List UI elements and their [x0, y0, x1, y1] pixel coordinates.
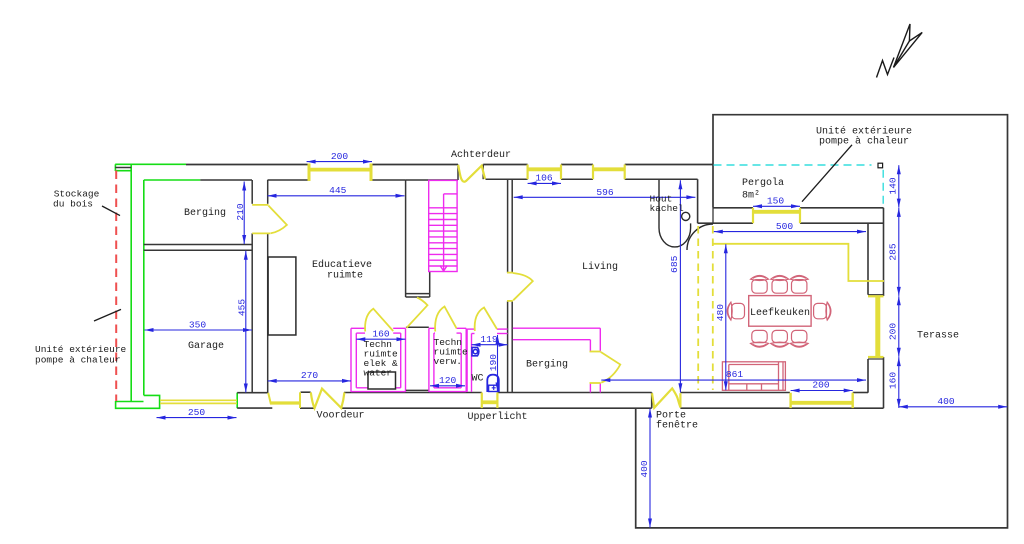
svg-text:150: 150	[767, 196, 785, 207]
dimension 400 (terrace height)	[648, 409, 652, 528]
chair bottom 2	[771, 330, 789, 347]
pointer line unite exterieure right	[802, 145, 852, 202]
wc washbasin (blue)	[472, 347, 479, 355]
berging (living) room magenta	[513, 328, 601, 392]
dimension 160 (chain)	[897, 357, 901, 408]
dimension 596 (living width)	[514, 195, 696, 199]
dimension 150 (pergola window)	[753, 204, 800, 208]
window 200 top (yellow)	[309, 164, 371, 182]
dimension 200 (top window)	[307, 160, 372, 164]
svg-text:Unité extérieure: Unité extérieure	[35, 344, 127, 355]
techn elek door (yellow)	[365, 309, 393, 332]
garage side door sill (yellow)	[271, 401, 300, 404]
wood storage green enclosure	[115, 164, 237, 408]
terrace outline	[636, 115, 1008, 528]
svg-text:WC: WC	[471, 374, 483, 385]
berging-garage wall left section	[144, 180, 268, 393]
living left wall (double)	[508, 179, 513, 392]
dimension 861 (living-keuken span)	[601, 378, 866, 382]
svg-text:Upperlicht: Upperlicht	[467, 411, 527, 423]
wc toilet (blue)	[487, 375, 499, 392]
porte fenetre door (yellow zigzag)	[652, 388, 680, 407]
svg-text:verw.: verw.	[434, 356, 463, 367]
wc room (magenta)	[467, 329, 508, 392]
dimension 500 (leefkeuken width)	[714, 230, 866, 234]
svg-text:210: 210	[235, 203, 246, 221]
svg-text:Pergola: Pergola	[742, 177, 784, 189]
svg-text:pompe à chaleur: pompe à chaleur	[819, 136, 909, 148]
hout kachel stove	[659, 180, 691, 247]
svg-text:Educatieve: Educatieve	[312, 259, 372, 271]
exterior top wall outer line	[186, 164, 713, 166]
yellow dashed passage lines living/leefkeuken	[698, 226, 713, 390]
red dashed line stockage	[115, 171, 117, 402]
svg-text:685: 685	[669, 255, 680, 273]
svg-text:455: 455	[237, 299, 248, 317]
dimension 119 (wc width)	[472, 343, 508, 347]
garage window 250 (double yellow)	[160, 400, 237, 403]
svg-text:250: 250	[188, 407, 206, 418]
educatieve closet black box	[268, 257, 296, 335]
svg-text:Berging: Berging	[526, 359, 568, 371]
svg-text:water: water	[364, 368, 393, 379]
leefkeuken top wall	[698, 179, 884, 223]
wc door (yellow)	[475, 308, 497, 332]
dimension 210 (berging height)	[242, 182, 246, 245]
exterior top wall inner line	[200, 165, 697, 181]
dining table	[749, 296, 811, 327]
svg-text:Garage: Garage	[188, 341, 224, 352]
svg-text:350: 350	[189, 319, 207, 330]
svg-text:106: 106	[535, 173, 553, 184]
svg-text:Leefkeuken: Leefkeuken	[750, 307, 810, 319]
techn ruimte elek room (magenta)	[351, 328, 406, 392]
svg-text:270: 270	[301, 370, 319, 381]
living door (yellow)	[507, 273, 533, 301]
dimension 445 (educatieve)	[268, 194, 405, 198]
chair right	[814, 302, 831, 320]
svg-text:285: 285	[888, 243, 899, 261]
dimension 480 (leefkeuken depth)	[724, 244, 728, 390]
chair bottom 1	[751, 330, 769, 347]
chair top 2	[771, 276, 789, 294]
window living 2 (yellow)	[593, 165, 625, 180]
chair top 1	[751, 276, 769, 294]
svg-text:160: 160	[372, 329, 390, 340]
wall garage/educatieve x=252	[251, 180, 253, 204]
svg-text:200: 200	[888, 323, 899, 341]
berging (living) door (yellow)	[590, 352, 621, 384]
chair top 3	[790, 276, 808, 294]
svg-text:480: 480	[715, 304, 726, 322]
svg-text:8m²: 8m²	[742, 191, 760, 202]
north arrow	[877, 24, 923, 78]
voordeur double door (yellow zigzag)	[311, 389, 345, 409]
leefkeuken door swing arc (black)	[687, 224, 713, 250]
pergola corner square marker	[878, 163, 883, 168]
svg-text:kachel: kachel	[650, 203, 685, 214]
svg-text:120: 120	[439, 375, 457, 386]
svg-text:500: 500	[776, 221, 794, 232]
svg-text:140: 140	[888, 177, 899, 195]
dimension 455 (garage height)	[244, 251, 248, 393]
svg-text:pompe à chaleur: pompe à chaleur	[35, 355, 121, 366]
right wall leefkeuken	[868, 208, 884, 408]
svg-text:400: 400	[639, 460, 650, 478]
svg-text:fenêtre: fenêtre	[656, 420, 698, 432]
bottom exterior wall	[237, 392, 883, 408]
elek equipment black box	[368, 372, 396, 389]
dimension 200 (bottom window)	[791, 389, 853, 393]
techn ruimte verw room (magenta)	[429, 328, 466, 392]
bottom window 200 (yellow)	[791, 393, 853, 408]
dimension 400 (terrace width)	[899, 405, 1007, 409]
svg-text:Berging: Berging	[184, 207, 226, 219]
berging left door (yellow)	[252, 205, 287, 234]
svg-text:du bois: du bois	[53, 199, 93, 210]
dimension 120 (techn verw)	[430, 384, 465, 388]
top-left corner black tick	[115, 167, 131, 169]
dimension 200 (chain)	[897, 296, 901, 357]
dimension 190 (wc depth)	[496, 335, 500, 392]
dimension 350 (garage width)	[145, 328, 253, 332]
svg-text:445: 445	[329, 185, 347, 196]
educatieve right wall / stair hall	[406, 180, 430, 297]
svg-text:596: 596	[596, 187, 614, 198]
chair bottom 3	[790, 330, 808, 347]
svg-text:861: 861	[726, 369, 744, 380]
svg-text:Terasse: Terasse	[917, 331, 959, 342]
dimension 250 (garage window)	[157, 416, 237, 420]
dimension 160 (techn elek)	[356, 337, 405, 341]
svg-text:200: 200	[812, 380, 830, 391]
right window 200 vertical (yellow)	[868, 296, 884, 357]
duct space between techn rooms (black caps)	[406, 327, 429, 390]
techn verw door (yellow)	[435, 307, 456, 332]
svg-text:Achterdeur: Achterdeur	[451, 149, 511, 161]
svg-text:400: 400	[937, 396, 955, 407]
pointer line stockage du bois	[102, 206, 120, 216]
window 106 (yellow)	[528, 165, 561, 180]
svg-text:Living: Living	[582, 261, 618, 273]
sofa	[722, 362, 785, 391]
pergola cyan dashed line	[714, 165, 884, 210]
dimension 106 (living window)	[528, 181, 561, 185]
achterdeur door (yellow zigzag)	[458, 165, 485, 182]
chair left	[727, 302, 744, 320]
svg-text:160: 160	[888, 372, 899, 390]
dimension 140 (chain)	[897, 165, 901, 207]
upperlicht window (yellow)	[482, 393, 498, 409]
svg-text:Voordeur: Voordeur	[316, 410, 364, 422]
svg-text:200: 200	[331, 151, 349, 162]
svg-text:190: 190	[488, 354, 499, 372]
pergola window 150 (yellow)	[753, 208, 800, 223]
leefkeuken yellow interior lines	[713, 244, 884, 281]
svg-text:ruimte: ruimte	[327, 270, 363, 282]
hall-educatieve door (yellow)	[407, 298, 428, 328]
pointer line unite exterieure left	[94, 309, 121, 321]
dimension 285 (chain)	[897, 208, 901, 296]
dimension 685 (living depth)	[678, 180, 682, 392]
dimension 270 (entry width)	[268, 379, 351, 383]
berging/garage divider wall	[144, 244, 252, 246]
staircase (magenta)	[429, 180, 457, 271]
svg-text:119: 119	[480, 334, 498, 345]
